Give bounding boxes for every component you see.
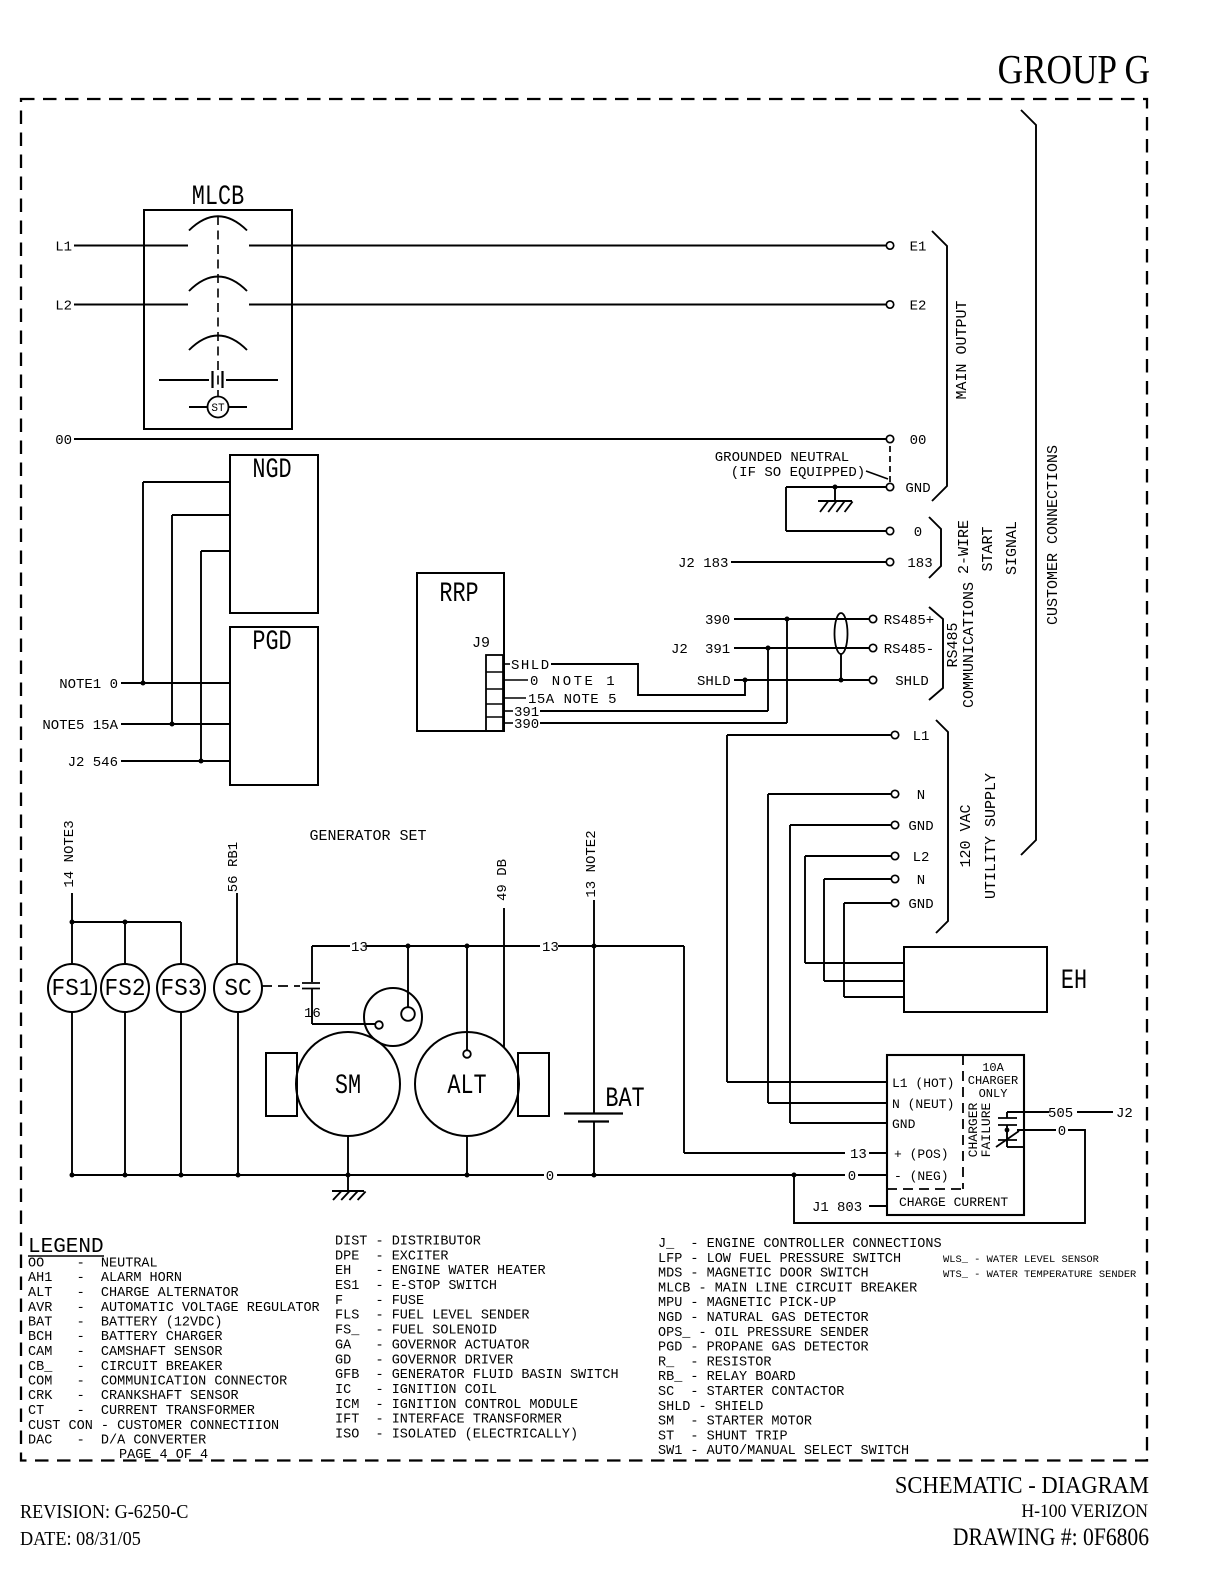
svg-text:56 RB1: 56 RB1 [226, 842, 242, 892]
svg-text:GA - GOVERNOR ACTUATOR: GA - GOVERNOR ACTUATOR [335, 1338, 529, 1353]
svg-text:EH - ENGINE WATER HEATER: EH - ENGINE WATER HEATER [335, 1264, 546, 1279]
svg-text:L2: L2 [55, 299, 72, 315]
svg-text:CHARGE CURRENT: CHARGE CURRENT [899, 1195, 1008, 1210]
svg-text:PGD - PROPANE GAS DETECTOR: PGD - PROPANE GAS DETECTOR [658, 1341, 869, 1356]
svg-text:REVISION: G-6250-C: REVISION: G-6250-C [20, 1501, 188, 1523]
svg-text:F - FUSE: F - FUSE [335, 1294, 424, 1309]
svg-text:CB_ - CIRCUIT BREAKER: CB_ - CIRCUIT BREAKER [28, 1360, 222, 1375]
svg-text:DATE: 08/31/05: DATE: 08/31/05 [20, 1528, 141, 1550]
svg-text:ES1 - E-STOP SWITCH: ES1 - E-STOP SWITCH [335, 1279, 497, 1294]
svg-text:13 NOTE2: 13 NOTE2 [584, 830, 600, 897]
svg-text:SHLD: SHLD [895, 674, 929, 690]
svg-text:GROUP G: GROUP G [998, 48, 1150, 93]
svg-text:J9: J9 [472, 635, 490, 652]
svg-text:GROUNDED NEUTRAL: GROUNDED NEUTRAL [715, 450, 849, 466]
svg-text:E2: E2 [910, 299, 927, 315]
svg-text:GFB - GENERATOR FLUID BASIN S: GFB - GENERATOR FLUID BASIN SWITCH [335, 1368, 619, 1383]
svg-text:00: 00 [910, 433, 927, 449]
svg-text:SC - STARTER CONTACTOR: SC - STARTER CONTACTOR [658, 1385, 844, 1400]
svg-text:GND: GND [892, 1117, 916, 1132]
svg-text:NOTE1 0: NOTE1 0 [59, 677, 118, 693]
svg-text:COM - COMMUNICATION CONNECT: COM - COMMUNICATION CONNECTOR [28, 1375, 287, 1390]
svg-text:CHARGER: CHARGER [968, 1074, 1018, 1088]
svg-text:13: 13 [542, 940, 559, 956]
svg-text:COMMUNICATIONS: COMMUNICATIONS [961, 582, 978, 708]
svg-text:BAT: BAT [605, 1083, 644, 1115]
svg-text:MLCB - MAIN LINE CIRCUIT BREAK: MLCB - MAIN LINE CIRCUIT BREAKER [658, 1281, 917, 1296]
svg-text:GENERATOR SET: GENERATOR SET [309, 828, 426, 845]
svg-text:15A NOTE 5: 15A NOTE 5 [528, 692, 617, 708]
svg-text:RS485: RS485 [945, 622, 962, 667]
svg-text:390: 390 [705, 613, 730, 629]
svg-text:+ (POS): + (POS) [894, 1147, 949, 1162]
svg-text:CUST CON - CUSTOMER CONNECTIIO: CUST CON - CUSTOMER CONNECTIION [28, 1419, 279, 1434]
svg-text:GND: GND [908, 819, 933, 835]
svg-text:DPE - EXCITER: DPE - EXCITER [335, 1249, 448, 1264]
svg-text:L1: L1 [55, 240, 72, 256]
svg-text:505: 505 [1048, 1106, 1073, 1122]
svg-text:N (NEUT): N (NEUT) [892, 1097, 954, 1112]
svg-text:FS3: FS3 [160, 977, 201, 1004]
svg-text:SM - STARTER MOTOR: SM - STARTER MOTOR [658, 1415, 812, 1430]
svg-text:AVR - AUTOMATIC VOLTAGE REG: AVR - AUTOMATIC VOLTAGE REGULATOR [28, 1301, 320, 1316]
svg-text:SM: SM [335, 1070, 361, 1102]
svg-text:WTS_ - WATER TEMPERATURE SENDE: WTS_ - WATER TEMPERATURE SENDER [943, 1269, 1136, 1281]
svg-text:ALT: ALT [447, 1070, 486, 1102]
svg-text:E1: E1 [910, 240, 927, 256]
svg-text:- (NEG): - (NEG) [894, 1169, 949, 1184]
svg-text:OO - NEUTRAL: OO - NEUTRAL [28, 1257, 158, 1272]
svg-text:120 VAC: 120 VAC [958, 804, 975, 867]
svg-text:IC - IGNITION COIL: IC - IGNITION COIL [335, 1383, 497, 1398]
svg-text:EH: EH [1061, 965, 1087, 997]
svg-text:DRAWING #: 0F6806: DRAWING #: 0F6806 [953, 1523, 1149, 1551]
svg-text:BCH - BATTERY CHARGER: BCH - BATTERY CHARGER [28, 1330, 222, 1345]
svg-text:NGD: NGD [252, 454, 291, 486]
svg-text:J2 546: J2 546 [68, 755, 118, 771]
svg-text:14 NOTE3: 14 NOTE3 [62, 820, 78, 887]
svg-text:NGD - NATURAL GAS DETECTOR: NGD - NATURAL GAS DETECTOR [658, 1311, 869, 1326]
svg-text:NOTE5 15A: NOTE5 15A [42, 718, 118, 734]
svg-text:PAGE 4 OF 4: PAGE 4 OF 4 [119, 1448, 208, 1463]
svg-text:SIGNAL: SIGNAL [1004, 521, 1021, 575]
svg-text:L2: L2 [913, 850, 930, 866]
svg-text:(IF SO EQUIPPED): (IF SO EQUIPPED) [731, 465, 865, 481]
svg-text:SHLD: SHLD [697, 674, 731, 690]
svg-text:ST: ST [211, 403, 225, 415]
svg-text:PGD: PGD [252, 626, 291, 658]
svg-text:CT - CURRENT TRANSFORMER: CT - CURRENT TRANSFORMER [28, 1404, 255, 1419]
svg-text:2-WIRE: 2-WIRE [956, 520, 973, 574]
svg-text:ALT - CHARGE ALTERNATOR: ALT - CHARGE ALTERNATOR [28, 1286, 239, 1301]
svg-text:SCHEMATIC - DIAGRAM: SCHEMATIC - DIAGRAM [895, 1472, 1149, 1499]
svg-text:J2 183: J2 183 [678, 556, 728, 572]
svg-text:RB_ - RELAY BOARD: RB_ - RELAY BOARD [658, 1370, 796, 1385]
svg-text:13: 13 [351, 940, 368, 956]
svg-text:CAM - CAMSHAFT SENSOR: CAM - CAMSHAFT SENSOR [28, 1345, 222, 1360]
svg-text:10A: 10A [982, 1061, 1004, 1075]
svg-text:CUSTOMER CONNECTIONS: CUSTOMER CONNECTIONS [1045, 445, 1062, 625]
svg-text:391: 391 [705, 642, 730, 658]
svg-text:0: 0 [1058, 1124, 1066, 1140]
svg-text:GND: GND [905, 481, 930, 497]
svg-text:J1: J1 [812, 1200, 829, 1216]
svg-text:16: 16 [304, 1006, 321, 1022]
svg-text:SC: SC [224, 977, 251, 1004]
svg-text:START: START [980, 526, 997, 571]
svg-text:N: N [917, 873, 925, 889]
svg-text:WLS_ - WATER LEVEL SENSOR: WLS_ - WATER LEVEL SENSOR [943, 1254, 1099, 1266]
svg-text:MLCB: MLCB [192, 181, 244, 213]
svg-text:DIST - DISTRIBUTOR: DIST - DISTRIBUTOR [335, 1235, 481, 1250]
svg-text:SHLD - SHIELD: SHLD - SHIELD [658, 1400, 763, 1415]
svg-text:BAT - BATTERY (12VDC): BAT - BATTERY (12VDC) [28, 1316, 222, 1331]
svg-text:803: 803 [837, 1200, 862, 1216]
svg-text:13: 13 [850, 1147, 867, 1163]
svg-text:L1: L1 [913, 729, 930, 745]
svg-text:183: 183 [907, 556, 932, 572]
svg-text:MPU - MAGNETIC PICK-UP: MPU - MAGNETIC PICK-UP [658, 1296, 836, 1311]
svg-text:0: 0 [914, 525, 922, 541]
svg-text:FAILURE: FAILURE [979, 1102, 994, 1157]
svg-text:SHLD: SHLD [511, 658, 551, 674]
svg-text:DAC - D/A CONVERTER: DAC - D/A CONVERTER [28, 1434, 206, 1449]
svg-text:49 DB: 49 DB [495, 859, 511, 901]
svg-text:GND: GND [908, 897, 933, 913]
svg-text:00: 00 [55, 433, 72, 449]
svg-text:ICM - IGNITION CONTROL MODULE: ICM - IGNITION CONTROL MODULE [335, 1398, 578, 1413]
svg-text:H-100 VERIZON: H-100 VERIZON [1021, 1500, 1148, 1521]
svg-text:L1 (HOT): L1 (HOT) [892, 1076, 954, 1091]
svg-text:0: 0 [546, 1169, 554, 1185]
svg-text:CRK - CRANKSHAFT SENSOR: CRK - CRANKSHAFT SENSOR [28, 1389, 239, 1404]
svg-text:J_ - ENGINE CONTROLLER CONNEC: J_ - ENGINE CONTROLLER CONNECTIONS [658, 1237, 942, 1252]
svg-text:ST - SHUNT TRIP: ST - SHUNT TRIP [658, 1429, 788, 1444]
svg-text:MAIN OUTPUT: MAIN OUTPUT [954, 300, 971, 399]
svg-text:AH1 - ALARM HORN: AH1 - ALARM HORN [28, 1271, 182, 1286]
svg-text:RRP: RRP [439, 578, 478, 610]
svg-text:ISO - ISOLATED (ELECTRICALLY): ISO - ISOLATED (ELECTRICALLY) [335, 1428, 578, 1443]
svg-text:0: 0 [848, 1169, 856, 1185]
svg-text:FS1: FS1 [51, 977, 92, 1004]
svg-text:LFP - LOW FUEL PRESSURE SWITCH: LFP - LOW FUEL PRESSURE SWITCH [658, 1252, 901, 1267]
svg-text:UTILITY SUPPLY: UTILITY SUPPLY [983, 773, 1000, 899]
svg-text:RS485-: RS485- [884, 642, 934, 658]
svg-text:FS2: FS2 [104, 977, 145, 1004]
svg-text:ONLY: ONLY [979, 1087, 1008, 1101]
svg-text:390: 390 [514, 717, 539, 733]
svg-text:N: N [917, 788, 925, 804]
svg-text:J2: J2 [1116, 1106, 1133, 1122]
svg-text:FS_ - FUEL SOLENOID: FS_ - FUEL SOLENOID [335, 1324, 497, 1339]
svg-text:J2: J2 [671, 642, 688, 658]
svg-text:OPS_ - OIL PRESSURE SENDER: OPS_ - OIL PRESSURE SENDER [658, 1326, 869, 1341]
svg-text:SW1 - AUTO/MANUAL SELECT SWITC: SW1 - AUTO/MANUAL SELECT SWITCH [658, 1444, 909, 1459]
svg-text:FLS - FUEL LEVEL SENDER: FLS - FUEL LEVEL SENDER [335, 1309, 529, 1324]
svg-text:RS485+: RS485+ [884, 613, 934, 629]
svg-text:GD - GOVERNOR DRIVER: GD - GOVERNOR DRIVER [335, 1353, 513, 1368]
svg-text:MDS - MAGNETIC DOOR SWITCH: MDS - MAGNETIC DOOR SWITCH [658, 1267, 869, 1282]
svg-text:IFT - INTERFACE TRANSFORMER: IFT - INTERFACE TRANSFORMER [335, 1413, 562, 1428]
svg-text:R_ - RESISTOR: R_ - RESISTOR [658, 1355, 771, 1370]
svg-text:0 NOTE 1: 0 NOTE 1 [530, 674, 617, 690]
